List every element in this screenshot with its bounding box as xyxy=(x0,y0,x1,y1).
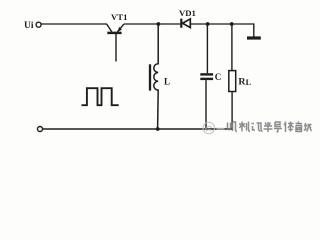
inductor L (winding) xyxy=(154,24,158,129)
svg-text:L: L xyxy=(164,76,170,86)
node: L to bottom wire xyxy=(156,127,160,131)
resistor RL bottom lead xyxy=(231,92,233,130)
capacitor C plates xyxy=(200,73,213,75)
capacitor C bottom lead xyxy=(205,80,207,129)
node: C tap on top wire xyxy=(206,22,210,26)
char 1 (kai) xyxy=(228,122,238,132)
char 3 (xun) xyxy=(252,123,263,132)
wire: VT1 collector to VD1 cathode xyxy=(124,23,181,25)
svg-text:VD1: VD1 xyxy=(179,8,196,18)
wire: VD1 anode to top-right corner xyxy=(190,23,254,25)
drive waveform (square wave) xyxy=(82,88,119,105)
svg-text:L: L xyxy=(246,78,252,87)
node: L tap on top wire xyxy=(157,22,161,26)
resistor RL top lead xyxy=(231,24,233,71)
wire: top-right corner drop xyxy=(253,23,255,37)
input terminal (top left) xyxy=(36,22,41,27)
char 2 (li) xyxy=(239,122,250,132)
transistor VT1 (PNP, base bar horizontal) xyxy=(107,24,124,61)
output terminal bar xyxy=(247,36,261,39)
svg-text:VT1: VT1 xyxy=(111,12,127,22)
char 6 (ti) xyxy=(284,122,294,133)
char 8 (cheng) xyxy=(304,123,312,132)
wire: input terminal to VT1 emitter xyxy=(41,23,107,25)
resistor RL body xyxy=(229,71,236,92)
capacitor C top lead xyxy=(206,24,208,73)
svg-text:Ui: Ui xyxy=(24,21,34,31)
char 4 (ban) xyxy=(264,122,273,132)
watermark logo + text (gray) xyxy=(203,122,225,134)
char 7 (shang) xyxy=(296,122,303,132)
svg-text:C: C xyxy=(215,72,222,82)
bottom terminal (bottom left) xyxy=(38,127,43,132)
node: RL tap on top wire xyxy=(230,22,234,26)
char 5 (dao) xyxy=(274,122,282,132)
bottom wire xyxy=(43,128,233,130)
inductor L core bar xyxy=(149,64,151,90)
diode VD1 (cathode left, anode right) xyxy=(181,19,190,28)
